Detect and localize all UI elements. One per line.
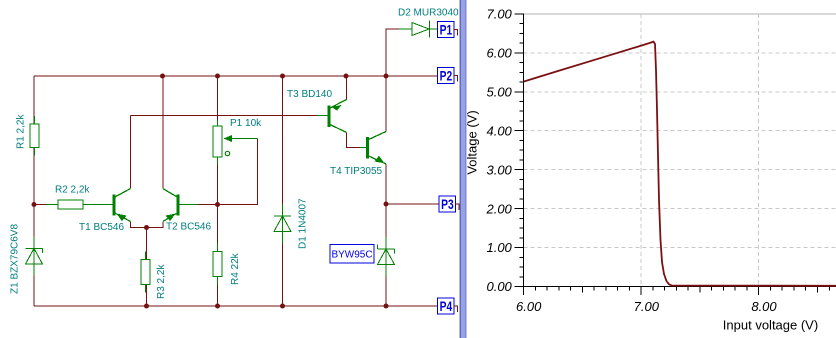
node top rail / T3 emitter [344,74,349,79]
resistor R3 [141,252,150,293]
svg-text:Z1 BZX79C6V8: Z1 BZX79C6V8 [10,224,21,294]
svg-text:P1: P1 [440,22,453,38]
splitter bar [460,0,467,338]
wire bottom rail [34,305,438,307]
svg-text:P2: P2 [440,68,453,84]
node top rail / T2 collector [160,74,165,79]
chart x tick labels [516,299,777,314]
svg-text:BYW95C: BYW95C [331,250,372,261]
wire P3 node to BYW95C to bottom rail [385,204,387,306]
svg-text:6.00: 6.00 [516,299,542,314]
chart top gridline [524,13,836,15]
svg-text:R3 2,2k: R3 2,2k [156,264,167,299]
transistor T3 [317,100,347,133]
label T2 name [166,222,211,233]
port P3 [439,196,459,212]
resistor R1 [30,116,39,156]
svg-text:D1 1N4007: D1 1N4007 [298,198,309,249]
potentiometer P1 [213,120,258,164]
diode D2 [399,21,438,38]
label R2 value [55,185,90,196]
svg-text:R2 2,2k: R2 2,2k [55,185,90,196]
svg-text:R4 22k: R4 22k [230,252,241,285]
svg-text:7.00: 7.00 [634,299,660,314]
svg-text:5.00: 5.00 [486,84,512,99]
label BYW95C boxed [330,245,374,264]
wire D1 branch [282,76,284,306]
node left rail / R2 [32,202,37,207]
wire top rail [34,75,438,77]
node top rail / D1 [280,74,285,79]
node bottom rail / R3 [144,304,149,309]
node bottom rail / R4 [215,304,220,309]
wire T3 collector to T4 base [347,132,368,147]
port P1 [438,22,458,38]
label T1 name [79,222,124,233]
node bottom rail / D1 [280,304,285,309]
label T3 name [287,89,332,100]
wire P3 connection [386,203,439,205]
svg-text:4.00: 4.00 [486,123,512,138]
wire T4 collector riser to D2 [386,29,399,132]
label D2 value [398,8,459,19]
label Z1 value [10,224,21,294]
svg-text:D2 MUR3040: D2 MUR3040 [398,8,459,19]
label R1 value [16,114,27,149]
svg-text:6.00: 6.00 [486,45,512,60]
resistor R4 [213,244,222,285]
node T2 base / pot [215,202,220,207]
chart curve [524,42,836,286]
svg-text:8.00: 8.00 [751,299,777,314]
svg-text:7.00: 7.00 [486,6,512,21]
port P4 [438,298,458,314]
label T4 name [330,166,383,177]
transistor T2 [163,189,198,222]
chart x axis [524,287,836,295]
diode D1 [274,204,291,243]
node top rail / T4 collector [384,74,389,79]
wire P1 riser from top rail [217,76,219,126]
wire T2 base to node [180,204,218,206]
resistor R2 [46,200,113,209]
wire R2 to T1 base [34,204,113,206]
svg-text:P1 10k: P1 10k [230,118,262,129]
svg-text:T2 BC546: T2 BC546 [166,222,211,233]
diode Z1 [26,237,43,276]
svg-text:T3 BD140: T3 BD140 [287,89,332,100]
wire T4 emitter to P3 node [385,164,387,204]
svg-text:T4 TIP3055: T4 TIP3055 [330,166,383,177]
wire emitters to node [131,221,164,227]
svg-text:2.00: 2.00 [485,201,512,216]
transistor T1 [96,189,131,222]
node P3 [384,202,389,207]
node emitters [144,225,149,230]
port P2 [438,68,458,84]
wire pot bottom to node / R4 rail [217,157,219,306]
wire T3 emitter riser [346,76,348,100]
node top rail / P1 [215,74,220,79]
wire node A horizontal to T3 base [131,115,330,117]
transistor T4 [360,132,386,165]
wire left rail [33,76,35,306]
label D1 value [298,198,309,249]
chart horizontal gridlines [524,53,836,248]
chart y axis title [465,110,480,174]
label R3 value [156,264,167,299]
wire T1 collector riser [130,116,132,189]
svg-text:1.00: 1.00 [486,240,512,255]
svg-text:R1 2,2k: R1 2,2k [16,114,27,149]
svg-text:P4: P4 [440,298,453,314]
svg-text:3.00: 3.00 [486,162,512,177]
svg-text:Voltage (V): Voltage (V) [465,110,480,174]
chart vertical gridlines [641,14,759,287]
wire T2 collector riser [162,76,164,189]
svg-text:Input voltage (V): Input voltage (V) [723,318,818,333]
svg-text:T1 BC546: T1 BC546 [79,222,124,233]
svg-text:0.00: 0.00 [486,279,512,294]
chart y tick labels [485,6,512,294]
wire node to R3 [146,228,148,307]
wire pot wiper return [218,139,258,205]
svg-text:P3: P3 [441,196,454,212]
label P1 value [230,118,262,129]
chart x axis title [723,318,818,333]
label R4 value [230,252,241,285]
chart y axis [515,13,524,295]
diode D (BYW95C) [378,237,395,276]
node bottom rail / P4 [384,304,389,309]
